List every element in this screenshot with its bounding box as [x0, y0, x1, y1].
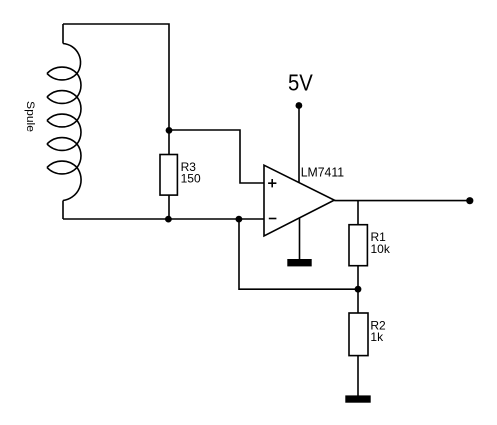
svg-text:1k: 1k	[370, 330, 384, 344]
svg-text:10k: 10k	[371, 242, 391, 256]
svg-text:Spule: Spule	[24, 101, 36, 132]
svg-text:150: 150	[181, 172, 201, 186]
svg-text:5V: 5V	[288, 69, 313, 95]
svg-text:LM7411: LM7411	[301, 164, 344, 179]
